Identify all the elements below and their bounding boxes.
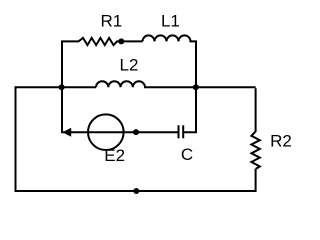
svg-text:C: C xyxy=(181,145,193,164)
svg-text:R2: R2 xyxy=(270,132,292,151)
svg-text:L2: L2 xyxy=(120,56,139,75)
svg-text:E2: E2 xyxy=(104,146,125,165)
svg-text:L1: L1 xyxy=(161,12,180,31)
svg-text:R1: R1 xyxy=(101,12,123,31)
